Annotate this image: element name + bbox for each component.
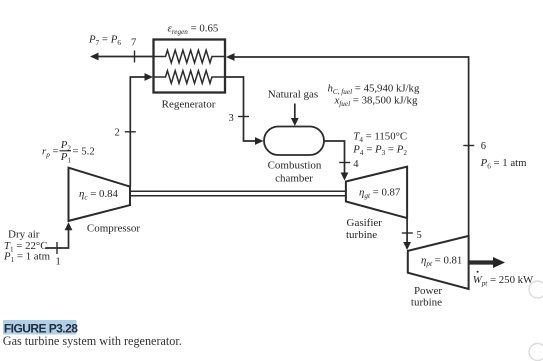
svg-text:6: 6 [481, 141, 486, 152]
svg-text:P6 = 1 atm: P6 = 1 atm [480, 157, 528, 171]
svg-text:P1: P1 [60, 151, 72, 165]
svg-text:turbine: turbine [346, 229, 377, 241]
svg-text:Dry air: Dry air [8, 229, 40, 241]
svg-text:4: 4 [353, 159, 359, 170]
combustion chamber [264, 127, 324, 156]
node 2 tick [125, 131, 136, 133]
arrowhead: into combustion chamber (points right) [255, 137, 264, 145]
wire: combustion chamber outlet via node 4 into gasifier turbine [324, 141, 345, 173]
svg-text:Wpt = 250 kW: Wpt = 250 kW [473, 274, 534, 288]
natural gas feed arrow (wire) [294, 104, 296, 119]
svg-text:chamber: chamber [275, 173, 313, 185]
label: dot over W [477, 271, 479, 273]
svg-text:turbine: turbine [411, 297, 442, 309]
arrowhead: cold stream into regenerator (points right) [145, 73, 154, 81]
svg-text:3: 3 [229, 113, 234, 124]
regenerator cold-side coil (zigzag, bottom) [154, 71, 226, 84]
gasifier turbine [346, 167, 407, 219]
svg-text:Gasifier: Gasifier [347, 217, 383, 229]
svg-text:ηpt = 0.81: ηpt = 0.81 [421, 255, 462, 269]
svg-text:Regenerator: Regenerator [162, 99, 216, 111]
arrowhead: node 5 into power turbine (points down) [403, 242, 411, 250]
wire: gasifier turbine exhaust via node 5 down to power turbine [406, 218, 408, 242]
arrowhead: natural gas into chamber (points down) [291, 118, 299, 126]
decorative faint circles (page artifacts) [529, 281, 543, 298]
node 4 tick [339, 162, 350, 164]
svg-text:ηgt = 0.87: ηgt = 0.87 [359, 187, 401, 201]
label: rp = P2/P1 = 5.2 [42, 139, 95, 165]
wire: regenerator cold outlet via node 3 to combustion chamber inlet [225, 77, 256, 141]
svg-text:= 5.2: = 5.2 [73, 146, 95, 158]
svg-text:Compressor: Compressor [87, 223, 141, 235]
svg-text:1: 1 [56, 257, 61, 268]
svg-text:Natural gas: Natural gas [268, 89, 318, 101]
svg-text:T4 = 1150°C: T4 = 1150°C [353, 131, 407, 145]
svg-text:2: 2 [115, 128, 120, 139]
node 6 tick [463, 145, 474, 147]
arrowhead: node 7 exhaust (points left) [90, 53, 99, 61]
power turbine [408, 236, 469, 289]
figure caption highlight [3, 320, 77, 335]
arrowhead: dry air into compressor (points up) [65, 222, 73, 230]
arrowhead: hot stream into regenerator (points left) [226, 53, 235, 61]
wire: dry air inlet via node 1 into compressor [45, 230, 68, 248]
svg-text:xfuel = 38,500 kJ/kg: xfuel = 38,500 kJ/kg [334, 95, 418, 109]
svg-text:P4 = P3 = P2: P4 = P3 = P2 [352, 144, 407, 158]
compressor [69, 168, 131, 221]
svg-text:Gas turbine system with regene: Gas turbine system with regenerator. [3, 334, 182, 348]
svg-text:Combustion: Combustion [268, 160, 322, 172]
wire: compressor outlet node 2 up to regenerator cold inlet [130, 77, 144, 187]
node 3 tick [238, 116, 249, 118]
svg-text:P1 = 1 atm: P1 = 1 atm [3, 251, 51, 265]
node 1 tick [56, 242, 58, 254]
svg-text:εregen = 0.65: εregen = 0.65 [168, 23, 219, 37]
arrowhead: node 4 into gasifier turbine (points down) [341, 173, 349, 181]
svg-text:7: 7 [131, 38, 136, 49]
power output shaft arrow [469, 260, 495, 264]
arrowhead: power output (big, points right) [493, 257, 505, 268]
wire: regenerator exhaust outlet to node 7 (leftward) [98, 56, 154, 58]
wire: power turbine exhaust up via node 6 to regenerator hot inlet [234, 57, 469, 236]
shaft: compressor to gasifier turbine (upper line) [130, 190, 346, 192]
svg-text:rp =: rp = [42, 146, 59, 160]
node 7 tick [134, 51, 136, 63]
svg-text:Power: Power [414, 285, 442, 297]
shaft: compressor to gasifier turbine (lower line) [130, 195, 346, 197]
svg-text:P7 = P6: P7 = P6 [88, 34, 121, 48]
svg-text:ηc = 0.84: ηc = 0.84 [79, 188, 119, 202]
node 5 tick [402, 232, 413, 234]
regenerator heat exchanger box [154, 40, 226, 93]
regenerator hot-side coil (zigzag, top) [154, 50, 226, 63]
svg-text:5: 5 [417, 230, 422, 241]
